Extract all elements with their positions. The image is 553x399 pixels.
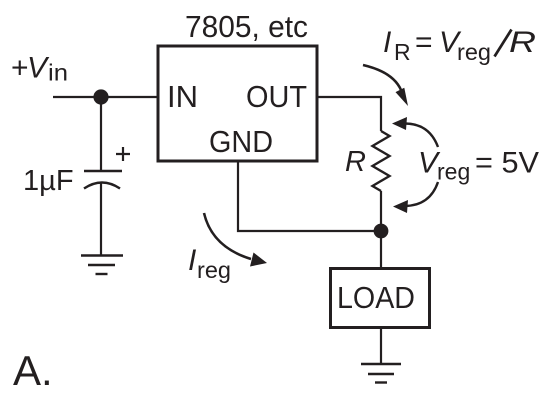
svg-text:R: R bbox=[345, 146, 366, 178]
wire GND pin to junction bbox=[238, 161, 381, 231]
svg-text:R: R bbox=[509, 26, 536, 59]
svg-text:GND: GND bbox=[209, 124, 273, 159]
annotation Vreg = 5V bbox=[418, 147, 539, 185]
svg-text:reg: reg bbox=[197, 257, 231, 283]
label +Vin (input net name) bbox=[11, 52, 68, 86]
LOAD block bbox=[331, 269, 430, 328]
annotation Ireg bbox=[188, 244, 231, 283]
ground (load) bbox=[361, 364, 401, 383]
capacitor C1 (polarized, 1uF) bbox=[84, 147, 130, 189]
node input junction bbox=[93, 89, 108, 104]
wire capacitor to ground bbox=[100, 184, 102, 256]
svg-text:7805, etc: 7805, etc bbox=[185, 9, 308, 44]
regulator U1 7805 body bbox=[158, 46, 317, 161]
svg-text:OUT: OUT bbox=[246, 79, 307, 114]
arrow Vreg bottom (points to resistor bottom) bbox=[393, 182, 438, 213]
arrow for IR (curved, into OUT wire corner) bbox=[363, 65, 408, 106]
svg-text:in: in bbox=[48, 60, 68, 86]
resistor R bbox=[373, 131, 390, 191]
annotation formula IR = Vreg/R bbox=[383, 26, 536, 65]
svg-text:I: I bbox=[383, 26, 391, 59]
svg-text:reg: reg bbox=[437, 159, 470, 185]
node output junction bbox=[374, 224, 389, 239]
ground (input capacitor) bbox=[81, 256, 123, 275]
wire OUT pin to resistor top bbox=[317, 97, 381, 131]
svg-text:1µF: 1µF bbox=[23, 165, 74, 197]
svg-text:A.: A. bbox=[13, 347, 53, 394]
svg-text:+: + bbox=[11, 52, 29, 85]
svg-text:= 5V: = 5V bbox=[475, 147, 539, 180]
arrow Vreg top (points to resistor top) bbox=[392, 117, 438, 147]
svg-text:V: V bbox=[27, 52, 50, 85]
wire input to IN pin bbox=[53, 96, 158, 98]
svg-text:LOAD: LOAD bbox=[337, 280, 415, 315]
arrow Ireg (curved, from GND wire toward junction) bbox=[204, 213, 267, 267]
wire junction to LOAD bbox=[380, 231, 382, 268]
svg-text:R: R bbox=[394, 39, 411, 65]
svg-text:=: = bbox=[415, 26, 433, 59]
wire junction down to capacitor bbox=[100, 97, 102, 170]
svg-text:I: I bbox=[188, 244, 196, 277]
svg-text:reg: reg bbox=[457, 39, 491, 65]
wire resistor bottom to junction bbox=[380, 191, 382, 231]
svg-text:IN: IN bbox=[167, 79, 198, 114]
wire LOAD to ground bbox=[380, 328, 382, 363]
